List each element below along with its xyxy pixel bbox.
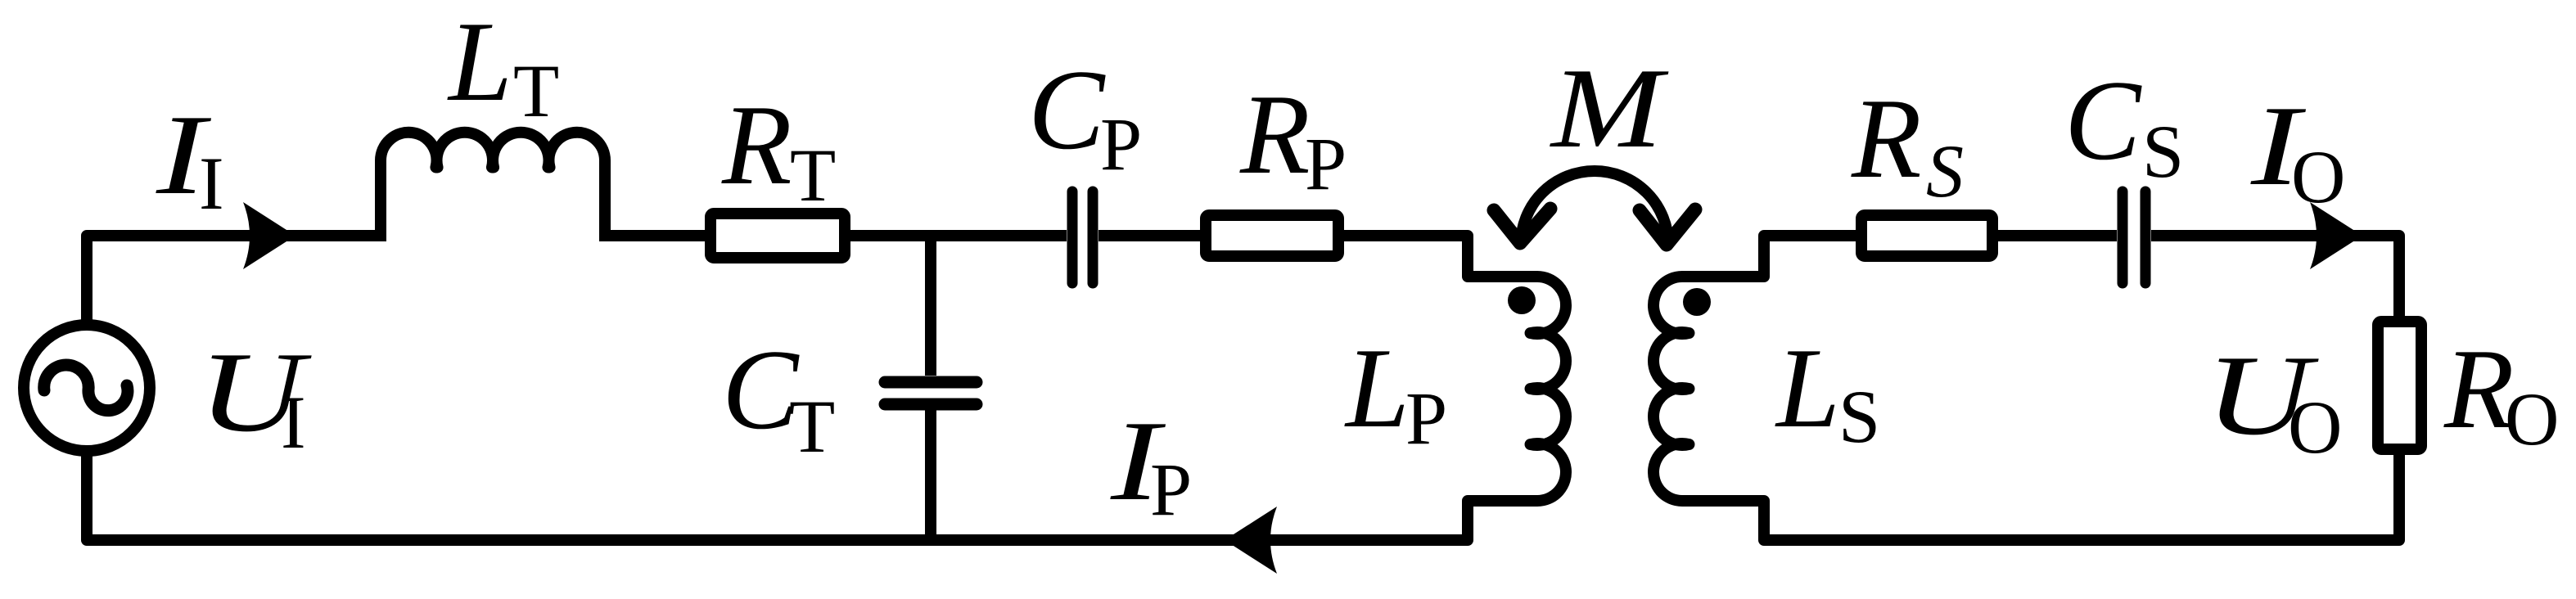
wire: secondary coil top to R_S xyxy=(1682,236,1861,277)
wire: C_P to R_P xyxy=(1099,230,1206,241)
svg-text:L: L xyxy=(1775,325,1840,452)
svg-text:R: R xyxy=(721,82,792,209)
M arrowhead right xyxy=(1640,209,1695,245)
svg-text:L: L xyxy=(1344,325,1410,452)
svg-text:T: T xyxy=(513,49,559,133)
svg-text:C: C xyxy=(722,327,800,453)
capacitor C_S plates xyxy=(2123,191,2145,283)
polarity dot secondary xyxy=(1683,288,1711,316)
AC source U_I circle xyxy=(24,325,150,451)
arrow I_I xyxy=(243,202,295,269)
transformer secondary coil L_S xyxy=(1653,277,1689,501)
capacitor C_T plates xyxy=(885,382,977,404)
svg-text:P: P xyxy=(1405,376,1447,460)
svg-text:M: M xyxy=(1550,45,1670,172)
capacitor C_P plates xyxy=(1072,191,1093,283)
wire: left vertical and top rail to inductor xyxy=(87,236,386,325)
AC source sine glyph xyxy=(44,365,128,411)
arrow I_O xyxy=(2310,202,2362,269)
svg-text:P: P xyxy=(1150,448,1192,531)
svg-text:I: I xyxy=(199,142,224,225)
wire: R_S to C_S left plate xyxy=(1998,230,2117,241)
svg-text:I: I xyxy=(281,381,306,464)
svg-text:L: L xyxy=(447,0,512,125)
capacitor C_T branch wire lower xyxy=(925,410,936,540)
wire: inductor to R_T xyxy=(599,230,708,241)
inductor L_T xyxy=(381,133,605,236)
wire: R_O bottom to bottom rail, rail left to secondary coil xyxy=(1682,453,2399,540)
svg-text:O: O xyxy=(2505,377,2559,461)
svg-text:P: P xyxy=(1305,122,1347,205)
svg-text:C: C xyxy=(1028,47,1106,173)
svg-text:R: R xyxy=(1239,71,1311,198)
wire: R_P to primary coil top, with step down xyxy=(1344,236,1537,277)
svg-text:T: T xyxy=(789,385,835,468)
resistor R_O (vertical) xyxy=(2378,322,2421,449)
capacitor C_T branch wire upper xyxy=(925,236,936,376)
resistor R_T xyxy=(711,214,845,258)
svg-text:S: S xyxy=(1926,129,1964,213)
svg-text:R: R xyxy=(1851,75,1922,202)
svg-text:T: T xyxy=(790,133,836,217)
wire: C_S to top right corner, down to R_O xyxy=(2151,236,2399,324)
wire: R_T to C_P left plate (through C_T junction) xyxy=(850,230,1067,241)
resistor R_S xyxy=(1861,215,1992,256)
svg-text:O: O xyxy=(2291,135,2345,218)
svg-text:S: S xyxy=(1838,375,1880,458)
polarity dot primary xyxy=(1508,286,1536,314)
svg-text:R: R xyxy=(2443,326,2515,453)
M arrowhead left xyxy=(1494,209,1550,243)
svg-text:O: O xyxy=(2288,385,2342,469)
arrow I_P (points left) xyxy=(1225,507,1277,574)
svg-text:S: S xyxy=(2142,110,2184,193)
resistor R_P xyxy=(1206,215,1338,256)
svg-text:C: C xyxy=(2064,57,2142,184)
svg-text:P: P xyxy=(1100,102,1142,186)
mutual inductance M arc xyxy=(1521,171,1668,245)
transformer primary coil L_P xyxy=(1531,277,1566,501)
wire: primary coil bottom to bottom rail, rail back to source xyxy=(87,451,1537,540)
